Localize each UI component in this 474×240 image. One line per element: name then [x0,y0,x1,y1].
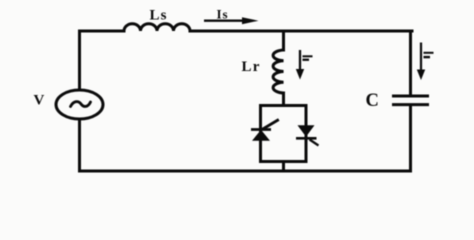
svg-text:Lr: Lr [242,59,261,75]
svg-text:Is: Is [217,6,229,21]
svg-text:Ls: Ls [150,8,168,24]
svg-text:V: V [34,93,45,109]
svg-text:C: C [366,91,379,111]
